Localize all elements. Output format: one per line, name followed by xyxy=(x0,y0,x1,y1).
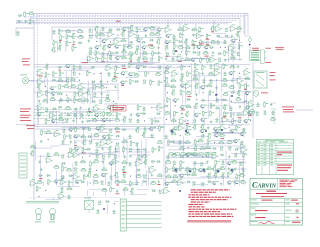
transistor junction dots xyxy=(103,50,233,210)
wire right column xyxy=(252,62,254,138)
right jacks components xyxy=(247,101,276,124)
power amp components xyxy=(164,124,248,186)
label footswitch red text xyxy=(20,59,35,129)
wire power connector lines xyxy=(126,202,161,228)
mid band components xyxy=(120,125,163,187)
connector power module xyxy=(250,50,267,63)
mixer components xyxy=(120,62,163,86)
connector P1 power xyxy=(120,199,126,231)
wire footswitch lines xyxy=(34,110,116,119)
notes numbered list xyxy=(188,189,236,217)
title block xyxy=(250,179,303,226)
wire mid-left rails xyxy=(34,127,165,130)
wire section verticals xyxy=(16,63,251,198)
label speaker red text xyxy=(282,107,294,113)
tone stack components xyxy=(51,29,84,52)
wire mid rails xyxy=(29,65,250,93)
psu left components xyxy=(36,186,80,200)
psu components xyxy=(87,186,170,196)
wire bus drops mid xyxy=(168,21,214,31)
wire output line xyxy=(296,109,313,111)
resistor chain R60-R67 xyxy=(167,153,216,158)
svg-text:CARVIN: CARVIN xyxy=(252,180,277,189)
wire input feed xyxy=(16,28,34,36)
wire section box xyxy=(52,27,160,100)
switch S2 effects xyxy=(254,71,267,88)
output transistors Q row xyxy=(169,129,236,172)
label master volume red box xyxy=(111,106,127,112)
jack send xyxy=(253,91,268,97)
input network components xyxy=(16,31,20,35)
wire top supply bus xyxy=(16,14,248,24)
channel B components xyxy=(164,24,243,63)
jack return xyxy=(249,109,255,115)
gain stage components xyxy=(36,64,120,104)
wire left rail xyxy=(33,20,35,200)
wire bus drop right xyxy=(240,14,248,35)
switching components xyxy=(36,103,164,125)
preamp input components xyxy=(17,11,35,25)
connector footswitch block xyxy=(19,153,27,178)
LED wiring diagram xyxy=(26,201,59,222)
label switch red text xyxy=(270,72,276,80)
bridge rectifier BR1 xyxy=(84,196,94,213)
psu lower components xyxy=(96,200,118,214)
zener D20 xyxy=(245,14,252,51)
effects loop components xyxy=(164,63,253,125)
label pull bright red text xyxy=(82,21,204,63)
wire left dashed rail xyxy=(37,14,39,128)
label power amp red text xyxy=(252,47,284,63)
table last used ref des xyxy=(257,140,294,175)
notes heading xyxy=(187,220,231,222)
input jack J1 xyxy=(20,75,34,84)
channel A components xyxy=(86,25,163,62)
reverb driver components xyxy=(29,129,61,186)
eq section components xyxy=(59,125,121,187)
